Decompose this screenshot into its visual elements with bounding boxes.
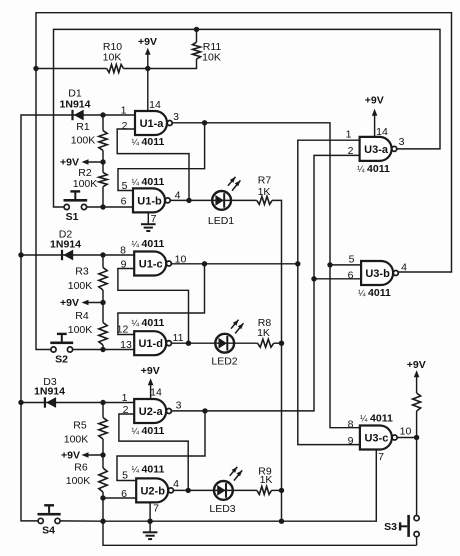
svg-text:14: 14	[376, 126, 388, 138]
svg-text:U3-b: U3-b	[365, 268, 390, 280]
svg-text:11: 11	[173, 332, 184, 344]
svg-text:2: 2	[123, 404, 129, 416]
svg-text:S3: S3	[384, 521, 397, 533]
svg-text:¼4011: ¼4011	[132, 425, 165, 437]
svg-text:+9V: +9V	[60, 157, 79, 169]
svg-text:¼4011: ¼4011	[132, 464, 165, 476]
svg-text:1: 1	[346, 129, 352, 141]
svg-text:100K: 100K	[68, 280, 93, 292]
svg-text:U3-a: U3-a	[364, 144, 389, 156]
svg-text:100K: 100K	[73, 178, 98, 190]
svg-text:U2-a: U2-a	[139, 406, 164, 418]
svg-text:5: 5	[122, 470, 128, 482]
svg-text:10K: 10K	[103, 52, 122, 64]
svg-text:LED2: LED2	[211, 356, 237, 368]
svg-text:2: 2	[122, 120, 128, 132]
svg-text:S2: S2	[55, 353, 68, 365]
svg-text:6: 6	[121, 196, 127, 208]
svg-text:+9V: +9V	[60, 297, 79, 309]
svg-text:1N914: 1N914	[34, 386, 65, 398]
svg-text:100K: 100K	[64, 434, 89, 446]
svg-text:¼4011: ¼4011	[132, 136, 165, 148]
svg-text:R5: R5	[73, 420, 87, 432]
svg-text:+9V: +9V	[407, 359, 426, 371]
svg-text:8: 8	[120, 245, 126, 257]
svg-text:6: 6	[121, 488, 127, 500]
svg-text:100K: 100K	[66, 475, 91, 487]
svg-text:U3-c: U3-c	[364, 433, 388, 445]
svg-text:U1-c: U1-c	[139, 259, 163, 271]
svg-text:10: 10	[175, 254, 187, 266]
svg-text:14: 14	[150, 387, 162, 399]
svg-text:12: 12	[117, 324, 129, 336]
svg-text:14: 14	[149, 99, 161, 111]
svg-text:R1: R1	[76, 121, 90, 133]
svg-text:4: 4	[173, 478, 179, 490]
svg-text:8: 8	[348, 419, 354, 431]
svg-text:¼4011: ¼4011	[360, 413, 393, 425]
svg-text:4: 4	[175, 190, 181, 202]
svg-text:1K: 1K	[260, 474, 273, 486]
svg-text:7: 7	[153, 503, 159, 515]
svg-text:R3: R3	[75, 266, 89, 278]
svg-text:+9V: +9V	[138, 36, 157, 48]
svg-text:¼4011: ¼4011	[132, 176, 165, 188]
svg-text:R6: R6	[74, 462, 88, 474]
svg-text:U1-a: U1-a	[140, 118, 165, 130]
svg-text:10: 10	[400, 426, 412, 438]
svg-text:100K: 100K	[68, 324, 93, 336]
svg-text:1K: 1K	[258, 186, 271, 198]
svg-text:LED1: LED1	[208, 215, 234, 227]
svg-text:6: 6	[348, 270, 354, 282]
svg-text:7: 7	[378, 451, 384, 463]
svg-text:1N914: 1N914	[50, 239, 81, 251]
svg-text:13: 13	[120, 339, 132, 351]
svg-text:1K: 1K	[257, 327, 270, 339]
svg-text:LED3: LED3	[209, 503, 235, 515]
svg-text:¼4011: ¼4011	[132, 317, 165, 329]
svg-text:1: 1	[121, 105, 127, 117]
svg-text:2: 2	[348, 145, 354, 157]
svg-text:S4: S4	[42, 525, 55, 537]
svg-text:R4: R4	[75, 310, 89, 322]
svg-text:9: 9	[348, 435, 354, 447]
svg-text:+9V: +9V	[61, 450, 80, 462]
svg-text:+9V: +9V	[141, 365, 160, 377]
svg-text:4: 4	[401, 262, 407, 274]
svg-text:3: 3	[399, 136, 405, 148]
svg-text:3: 3	[173, 111, 179, 123]
svg-text:U1-d: U1-d	[138, 338, 162, 350]
svg-text:1N914: 1N914	[60, 99, 91, 111]
svg-text:R7: R7	[258, 175, 272, 187]
svg-text:10K: 10K	[202, 52, 221, 64]
svg-text:7: 7	[151, 213, 157, 225]
svg-text:S1: S1	[66, 211, 79, 223]
svg-text:U1-b: U1-b	[137, 195, 162, 207]
svg-text:¼4011: ¼4011	[357, 163, 390, 175]
svg-text:9: 9	[121, 259, 127, 271]
svg-text:+9V: +9V	[365, 95, 384, 107]
svg-text:5: 5	[349, 254, 355, 266]
svg-text:3: 3	[176, 400, 182, 412]
svg-text:U2-b: U2-b	[140, 485, 165, 497]
svg-text:¼4011: ¼4011	[358, 287, 391, 299]
svg-text:5: 5	[122, 180, 128, 192]
svg-text:¼4011: ¼4011	[132, 238, 165, 250]
svg-text:1: 1	[122, 392, 128, 404]
svg-text:100K: 100K	[71, 135, 96, 147]
